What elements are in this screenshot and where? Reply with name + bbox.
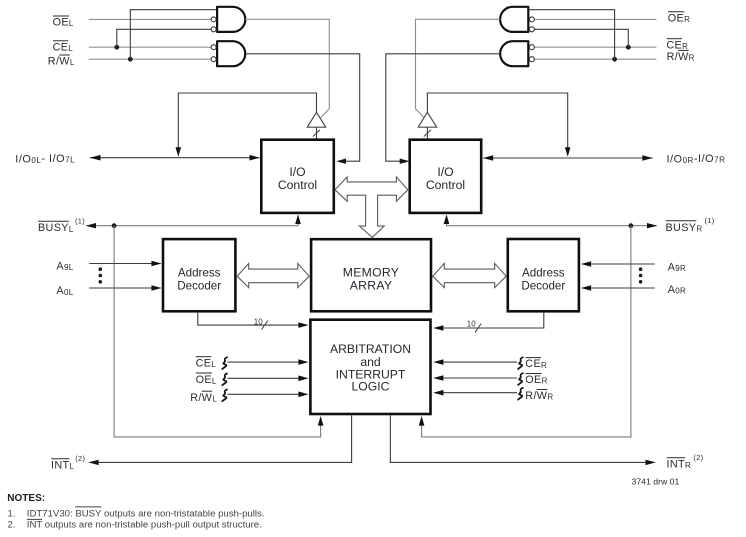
svg-text:I/O0L- I/O7L: I/O0L- I/O7L [15,153,75,165]
svg-text:Control: Control [426,178,465,192]
wire T1 input from I/O Control L top [316,127,318,138]
wire CER branch to gate G3 input [528,29,628,47]
bus arrow decoder-L to memory [237,263,309,287]
pin label CER [666,39,688,52]
wire A9R line [582,263,655,265]
svg-text:OEL: OEL [196,374,217,386]
block Memory Array [311,239,431,311]
pin label BUSYR with note ref [666,216,715,234]
svg-text:OER: OER [525,374,547,386]
svg-text:Decoder: Decoder [177,280,221,293]
block Arbitration and Interrupt Logic [310,320,430,414]
wire BUSYL loop to arbitration [114,226,321,437]
wire CEL to arbitration [228,361,307,363]
svg-text:IDT71V30: BUSY outputs are non: IDT71V30: BUSY outputs are non-tristatab… [27,508,265,519]
svg-text:I/O0R-I/O7R: I/O0R-I/O7R [667,153,726,165]
pin label OEL [53,16,74,29]
squiggle R/WR [518,388,523,400]
pin label INTR with note ref [667,453,704,471]
wire A0R line [582,287,655,289]
svg-text:R/WR: R/WR [525,390,553,402]
wire G2 output to I/O Control left [247,54,360,161]
wire R/WL branch to gate G1 input [130,10,217,60]
pin label INTL with note ref [51,454,85,472]
slash bus mark right 10 [475,324,481,333]
block I/O Control left [261,140,334,213]
junction R/WL node [128,57,133,62]
bubble G4 R/W input [529,57,534,62]
buffer T2 right output driver [418,112,437,127]
svg-text:2.: 2. [8,520,16,531]
arrowhead BUSYL loop into arbitration bottom [318,416,324,426]
squiggle OEL [222,374,227,386]
AND gate G3 right read-enable [500,7,528,32]
svg-text:10: 10 [467,320,476,329]
arrowhead 10-bit bus left into arbitration [298,322,308,328]
svg-text:R/WR: R/WR [667,51,695,63]
svg-text:A0L: A0L [56,285,73,297]
wire T1 output to I/O bus [178,93,316,149]
bubble G2 CE input [211,45,216,50]
squiggle CEL [222,357,227,369]
arrowhead BUSYR into I/O Control R bottom [444,214,450,224]
arrowhead R/WR into arbitration [433,390,443,396]
svg-text:CEL: CEL [196,357,217,369]
arrowhead T1 output onto I/O line [176,147,182,157]
bubble G3 OE input [529,17,534,22]
svg-text:Address: Address [178,267,221,280]
wire R/WR input line [534,58,656,60]
wire A0L line [89,287,160,289]
note 1 [8,507,265,519]
AND gate G4 right write-enable [500,41,528,66]
slash bus mark left 10 [262,321,268,330]
svg-text:A9R: A9R [668,262,687,274]
svg-text:CEL: CEL [53,41,74,53]
svg-text:(2): (2) [693,453,703,462]
wire OEL input line [89,18,212,20]
wire T2 output to I/O bus [427,93,567,149]
svg-text:CER: CER [525,358,547,370]
svg-text:(1): (1) [705,216,715,225]
junction BUSYR node [629,223,634,228]
wire CER input line [534,46,656,48]
slash bus mark below T1 [313,130,320,137]
pin label CEL arbitration [196,357,217,370]
svg-text:LOGIC: LOGIC [352,380,390,394]
wire R/WL input line [89,58,212,60]
svg-text:(2): (2) [75,454,85,463]
arrowhead I/O left outward [90,155,101,161]
bubble G1 OE input [211,17,216,22]
arrowhead G2 into I/O Control L right edge [336,159,346,164]
svg-text:BUSYL: BUSYL [38,222,74,234]
wire OER to arbitration [435,377,517,379]
pin label R/WR [667,50,695,63]
slash bus mark below T2 [424,130,431,137]
squiggle CER [518,357,523,369]
bus arrow decoder-R to memory [433,263,506,287]
wire I/O left bus line [90,157,260,159]
svg-text:A9L: A9L [56,260,73,272]
wire INTR from arbitration [390,415,646,462]
arrowhead 10-bit bus right into arbitration [433,325,443,331]
arrowhead OEL into arbitration [298,376,308,382]
node ellipsis right address [639,267,643,283]
pin label OEL arbitration [196,373,217,386]
svg-text:ARRAY: ARRAY [350,279,393,293]
block Address Decoder left [163,239,235,311]
AND gate G2 left write-enable [217,41,245,66]
svg-text:R/WL: R/WL [190,392,217,404]
svg-text:Control: Control [278,178,317,192]
arrowhead A0R into decoder [581,285,591,291]
junction CER node [626,45,631,50]
wire G1 output to buffer T1 [245,19,329,117]
wire CEL input line [89,46,212,48]
buffer T1 left output driver [307,112,326,127]
wire INTL from arbitration [90,415,352,462]
svg-text:CER: CER [666,39,688,51]
arrowhead BUSYR outward [647,223,657,228]
arrowhead CER into arbitration [433,359,443,365]
arrowhead CEL into arbitration [298,359,308,365]
bus arrow I/O Control to I/O Control and Memory [335,177,408,238]
pin label R/WR arbitration [525,390,553,403]
arrowhead BUSYR loop into arbitration bottom [419,416,425,426]
arrowhead T2 output onto I/O line [565,147,571,157]
svg-text:MEMORY: MEMORY [343,266,399,280]
node ellipsis left address [99,267,103,283]
svg-text:1.: 1. [8,508,16,519]
note 2 [8,519,262,530]
arrowhead OER into arbitration [433,375,443,381]
wire BUSYR line [447,216,657,226]
svg-text:BUSYR: BUSYR [666,222,703,234]
arrowhead I/O right outward [642,155,653,161]
bubble G1 CE input [211,27,216,32]
arrowhead BUSYL outward [86,223,96,228]
wire G3 output to buffer T2 [416,19,500,117]
svg-text:Address: Address [522,267,565,280]
wire CEL branch to gate G1 input [117,29,217,47]
block Address Decoder right [508,239,579,311]
bubble G4 CE input [529,45,534,50]
svg-text:I/O: I/O [289,165,305,179]
wire BUSYL line [87,216,299,226]
svg-text:(1): (1) [75,216,85,225]
svg-text:INTR: INTR [667,458,692,470]
svg-text:Decoder: Decoder [521,280,565,293]
pin label R/WL [48,55,75,68]
wire R/WL to arbitration [228,393,307,395]
svg-text:I/O: I/O [437,165,453,179]
arrowhead A9L into decoder [151,261,161,267]
svg-text:A0R: A0R [668,284,687,296]
junction BUSYL node [112,223,117,228]
bubble G2 R/W input [211,57,216,62]
wire I/O right bus line [483,157,652,159]
arrowhead INTR outward [646,460,656,465]
pin label CEL [53,41,74,54]
arrowhead I/O right into I/O Control R [483,155,493,161]
wire OER input line [534,18,656,20]
svg-text:R/WL: R/WL [48,56,75,68]
wire R/WR branch to gate G3 input [528,10,614,60]
wire CER to arbitration [435,361,517,363]
arrowhead BUSYL into I/O Control L bottom [295,214,301,224]
arrowhead INTL outward [88,460,98,465]
junction CEL node [114,45,119,50]
wire T2 input from I/O Control R top [426,127,428,138]
wire A9L line [89,263,160,265]
wire R/WR to arbitration [435,392,517,394]
svg-text:OEL: OEL [53,17,74,29]
svg-text:INT outputs are non-tristable: INT outputs are non-tristable push-pull … [27,520,262,531]
arrowhead A0L into decoder [151,285,161,291]
block I/O Control right [410,140,482,213]
svg-text:OER: OER [668,12,690,24]
AND gate G1 left read-enable [217,7,245,32]
wire G4 output to I/O Control right [386,54,500,161]
arrowhead G4 into I/O Control R left edge [400,159,410,164]
pin label OER [668,12,690,25]
pin label CER arbitration [525,358,547,371]
squiggle OER [518,373,523,385]
svg-text:INTL: INTL [51,459,74,471]
junction R/WR node [612,57,617,62]
wire OEL to arbitration [228,377,307,379]
pin label BUSYL with note ref [38,216,85,234]
svg-text:NOTES:: NOTES: [7,493,45,504]
wire BUSYR loop to arbitration [422,226,631,437]
svg-text:3741 drw 01: 3741 drw 01 [632,476,680,486]
bubble G3 CE input [529,27,534,32]
arrowhead I/O left into I/O Control L [250,155,260,161]
arrowhead A9R into decoder [581,261,591,267]
arrowhead R/WL into arbitration [298,392,308,398]
svg-text:10: 10 [254,318,263,327]
pin label R/WL arbitration [190,391,217,404]
wire decoder-L 10-bit bus to arbitration [198,313,307,326]
wire decoder-R 10-bit bus to arbitration [435,313,544,328]
pin label OER arbitration [525,374,547,387]
squiggle R/WL [222,390,227,402]
